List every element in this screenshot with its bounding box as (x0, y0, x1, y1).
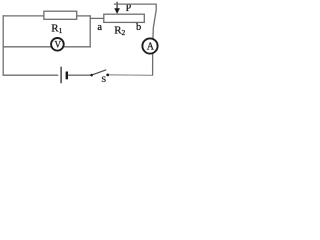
wire: battery to switch (68, 74, 92, 76)
wire: switch to bottom-right corner (109, 74, 153, 77)
svg-text:A: A (147, 42, 155, 53)
wiper arrowhead P (114, 8, 120, 14)
voltmeter V (51, 38, 64, 51)
wiper tail (116, 2, 118, 9)
switch blade (92, 70, 106, 75)
svg-text:R1: R1 (51, 22, 62, 35)
wire: right vertical upper (slight slant) (153, 4, 157, 46)
svg-text:b: b (136, 22, 141, 33)
switch right contact (106, 74, 109, 77)
svg-text:R2: R2 (114, 24, 125, 37)
wire: vertical junction x=90 down to voltmeter branch (89, 15, 91, 47)
wire: bottom-left horizontal to battery (3, 74, 59, 76)
wire: left vertical (2, 15, 4, 76)
svg-text:S: S (101, 74, 106, 84)
rheostat R2 (104, 14, 145, 22)
wire: R1 right to node corner (76, 15, 91, 17)
switch left contact (90, 74, 93, 77)
svg-text:a: a (97, 22, 102, 33)
battery short thick plate (66, 72, 68, 80)
battery long plate (60, 67, 62, 84)
wire: top-left horizontal to R1 (3, 15, 45, 17)
wire: stub to R2 terminal a (90, 17, 104, 19)
svg-text:V: V (55, 40, 62, 50)
wire: wiper to top-right corner (114, 3, 157, 5)
ammeter A (142, 38, 157, 53)
resistor R1 (44, 11, 77, 19)
wire: right vertical lower below ammeter (152, 46, 154, 76)
wire: voltmeter branch horizontal (3, 46, 91, 48)
